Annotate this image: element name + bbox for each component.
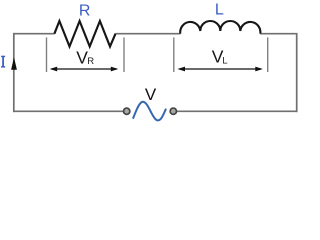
VR bracket right bar — [123, 37, 125, 72]
VL bracket left bar — [173, 37, 175, 72]
svg-text:L: L — [215, 2, 224, 19]
wire: top-right horizontal segment from L to right corner — [260, 33, 296, 35]
VL double-headed arrow — [178, 67, 263, 72]
wire: bottom-left horizontal segment to source terminal — [13, 110, 123, 112]
svg-text:V: V — [145, 85, 157, 104]
inductor L arcs — [180, 21, 260, 34]
wire: top-middle horizontal segment between R and L — [115, 33, 180, 35]
wire: top-left horizontal segment — [14, 33, 55, 35]
svg-text:R: R — [79, 2, 91, 19]
wire: left vertical segment — [13, 33, 15, 112]
label VR — [76, 48, 94, 68]
VR double-headed arrow — [50, 67, 119, 72]
svg-text:R: R — [87, 56, 94, 67]
resistor R zigzag — [54, 21, 115, 47]
svg-text:L: L — [222, 55, 227, 66]
source sine wave (blue) — [133, 102, 166, 121]
label VL — [212, 47, 228, 67]
source terminal right (gray circle) — [170, 108, 176, 114]
VR bracket left bar — [46, 37, 48, 72]
wire: right vertical segment — [296, 33, 298, 112]
current label I (blue serif, left side) — [1, 56, 5, 68]
wire: bottom-right horizontal segment from source terminal — [177, 110, 298, 112]
current direction arrowhead on left wire — [11, 57, 17, 69]
source terminal left (gray circle) — [124, 108, 130, 114]
VL bracket right bar — [267, 37, 269, 72]
